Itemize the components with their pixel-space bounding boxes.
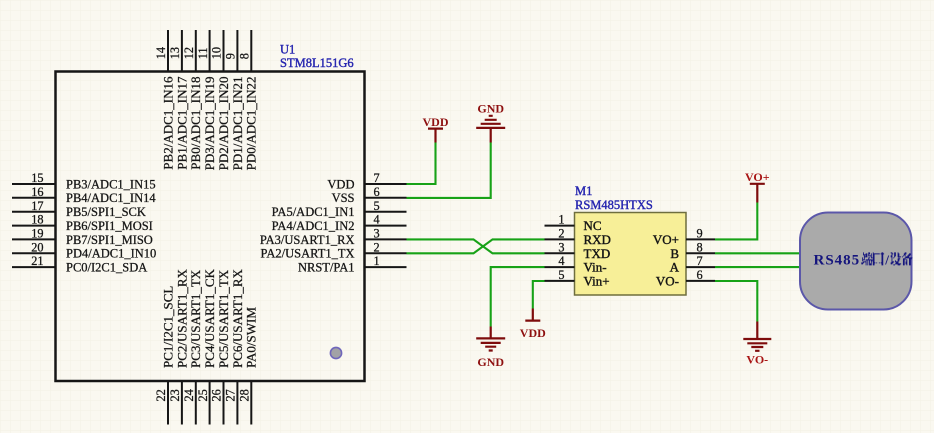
svg-text:PC6/USART1_RX: PC6/USART1_RX — [230, 268, 245, 368]
wire M1 pin 6 VO- to VO- power port — [715, 281, 757, 322]
ground GND (top, flipped) — [476, 102, 505, 143]
svg-text:PC5/USART1_TX: PC5/USART1_TX — [216, 269, 231, 368]
svg-text:19: 19 — [31, 227, 43, 241]
svg-text:RSM485HTXS: RSM485HTXS — [575, 198, 653, 212]
svg-text:15: 15 — [31, 171, 43, 185]
svg-text:9: 9 — [697, 227, 703, 241]
M1 pin 9 VO+ (right) — [653, 227, 715, 248]
svg-text:16: 16 — [31, 185, 43, 199]
svg-text:PC4/USART1_CK: PC4/USART1_CK — [202, 268, 217, 368]
svg-text:PA0/SWIM: PA0/SWIM — [244, 307, 259, 368]
U1 pin 22 PC1/I2C1_SCL (bottom) — [154, 286, 175, 425]
svg-text:PB3/ADC1_IN15: PB3/ADC1_IN15 — [66, 177, 156, 191]
U1 pin 11 PD3/ADC1_IN19 (top) — [196, 30, 217, 170]
U1 pin 4 PA4/ADC1_IN2 (right) — [272, 213, 407, 233]
M1 pin 3 TXD (left) — [545, 240, 611, 261]
svg-text:23: 23 — [168, 389, 182, 401]
wire GND rail to U1 pin 6 VSS — [407, 143, 491, 198]
svg-text:4: 4 — [374, 213, 380, 227]
svg-text:10: 10 — [210, 47, 224, 59]
U1 pin 2 PA2/USART1_TX (right) — [261, 240, 407, 260]
U1 pin 27 PC6/USART1_RX (bottom) — [224, 268, 245, 424]
svg-text:PB4/ADC1_IN14: PB4/ADC1_IN14 — [66, 191, 156, 205]
svg-text:1: 1 — [558, 213, 564, 227]
U1 pin 19 PB7/SPI1_MISO (left) — [12, 227, 153, 247]
svg-text:Vin+: Vin+ — [584, 274, 610, 289]
svg-text:8: 8 — [238, 53, 252, 59]
svg-text:A: A — [670, 260, 680, 275]
svg-text:Vin-: Vin- — [584, 260, 607, 275]
M1 pin 1 NC (left) — [545, 213, 602, 234]
svg-text:VO-: VO- — [746, 353, 768, 367]
wire M1 pin 8 B to RS485 device — [715, 252, 800, 254]
svg-text:/: / — [884, 253, 889, 268]
svg-text:27: 27 — [224, 389, 238, 401]
M1 pin 7 A (right) — [670, 254, 715, 275]
U1 pin 12 PB0/ADC1_IN18 (top) — [182, 30, 203, 170]
power port VDD (top, net VDD) — [423, 115, 449, 143]
svg-text:VDD: VDD — [423, 115, 449, 129]
svg-text:6: 6 — [697, 268, 703, 282]
svg-text:NC: NC — [584, 218, 602, 233]
svg-text:PC1/I2C1_SCL: PC1/I2C1_SCL — [160, 286, 175, 368]
wire VDD rail to U1 pin 7 VDD — [407, 143, 436, 185]
svg-text:PC0/I2C1_SDA: PC0/I2C1_SDA — [66, 261, 147, 275]
svg-text:PB5/SPI1_SCK: PB5/SPI1_SCK — [66, 205, 146, 219]
svg-text:11: 11 — [196, 47, 210, 59]
svg-text:NRST/PA1: NRST/PA1 — [298, 261, 355, 275]
svg-text:25: 25 — [196, 389, 210, 401]
svg-text:GND: GND — [477, 355, 504, 369]
svg-text:GND: GND — [477, 102, 504, 116]
svg-text:20: 20 — [31, 240, 43, 254]
M1 designator and part number labels — [575, 184, 653, 212]
U1 pin 13 PB1/ADC1_IN17 (top) — [168, 30, 189, 170]
U1 pin 9 PD1/ADC1_IN21 (top) — [224, 30, 245, 170]
svg-text:2: 2 — [374, 240, 380, 254]
wire M1 pin 7 A to RS485 device — [715, 266, 800, 268]
svg-text:RS485: RS485 — [814, 252, 861, 268]
svg-text:7: 7 — [697, 254, 703, 268]
svg-text:PB7/SPI1_MISO: PB7/SPI1_MISO — [66, 233, 153, 247]
svg-text:5: 5 — [374, 199, 380, 213]
ground GND (bottom) — [476, 327, 505, 370]
svg-text:28: 28 — [238, 389, 252, 401]
svg-text:TXD: TXD — [584, 246, 611, 261]
wire U1 PA3/USART1_RX to M1 TXD (crossover) — [407, 239, 545, 253]
svg-text:24: 24 — [182, 389, 196, 401]
svg-text:PC2/USART1_RX: PC2/USART1_RX — [174, 268, 189, 368]
U1 pin 18 PB6/SPI1_MOSI (left) — [12, 213, 153, 233]
U1 pin 28 PA0/SWIM (bottom) — [238, 307, 259, 425]
svg-text:18: 18 — [31, 213, 43, 227]
U1 body marker dot — [330, 347, 341, 358]
RS485 port/device label: RS485端口/设备 — [814, 252, 913, 268]
svg-text:1: 1 — [374, 254, 380, 268]
svg-text:PD0/ADC1_IN22: PD0/ADC1_IN22 — [244, 77, 259, 171]
U1 pin 6 VSS (right) — [332, 185, 407, 205]
U1 pin 21 PC0/I2C1_SDA (left) — [12, 254, 147, 274]
wire U1 PA2/USART1_TX to M1 RXD (crossover) — [407, 239, 545, 253]
U1 pin 3 PA3/USART1_RX (right) — [260, 227, 407, 247]
IC U1 STM8L151G6 body — [56, 72, 365, 382]
svg-text:21: 21 — [31, 254, 43, 268]
svg-text:3: 3 — [558, 240, 564, 254]
power port VDD (bottom, flipped) — [520, 309, 546, 340]
U1 pin 10 PD2/ADC1_IN20 (top) — [210, 30, 231, 170]
svg-text:6: 6 — [374, 185, 380, 199]
svg-text:PA5/ADC1_IN1: PA5/ADC1_IN1 — [272, 205, 355, 219]
U1 pin 1 NRST/PA1 (right) — [298, 254, 407, 274]
svg-text:7: 7 — [374, 171, 380, 185]
svg-text:3: 3 — [374, 227, 380, 241]
svg-text:13: 13 — [168, 47, 182, 59]
U1 pin 15 PB3/ADC1_IN15 (left) — [12, 171, 156, 191]
RS485 port/device block — [800, 213, 912, 310]
svg-text:5: 5 — [558, 268, 564, 282]
svg-text:VO+: VO+ — [745, 170, 770, 184]
svg-text:PB1/ADC1_IN17: PB1/ADC1_IN17 — [174, 76, 189, 170]
U1 pin 16 PB4/ADC1_IN14 (left) — [12, 185, 156, 205]
U1 pin 14 PB2/ADC1_IN16 (top) — [154, 30, 175, 170]
power port VO+ — [745, 170, 770, 203]
svg-text:PB0/ADC1_IN18: PB0/ADC1_IN18 — [188, 77, 203, 170]
U1 pin 17 PB5/SPI1_SCK (left) — [12, 199, 146, 219]
svg-text:RXD: RXD — [584, 232, 611, 247]
svg-text:2: 2 — [558, 227, 564, 241]
svg-text:M1: M1 — [575, 184, 592, 198]
svg-text:17: 17 — [31, 199, 43, 213]
U1 pin 24 PC3/USART1_TX (bottom) — [182, 269, 203, 424]
U1 pin 7 VDD (right) — [327, 171, 406, 191]
U1 pin 25 PC4/USART1_CK (bottom) — [196, 268, 217, 424]
svg-text:PC3/USART1_TX: PC3/USART1_TX — [188, 269, 203, 368]
module M1 RSM485HTXS body — [575, 213, 687, 296]
M1 pin 4 Vin- (left) — [545, 254, 607, 275]
svg-text:14: 14 — [154, 47, 168, 59]
svg-text:PA4/ADC1_IN2: PA4/ADC1_IN2 — [272, 219, 355, 233]
svg-text:PD1/ADC1_IN21: PD1/ADC1_IN21 — [230, 77, 245, 171]
M1 pin 5 Vin+ (left) — [545, 268, 610, 289]
svg-text:22: 22 — [154, 389, 168, 401]
svg-text:4: 4 — [558, 254, 564, 268]
U1 designator and part number labels — [280, 43, 354, 71]
svg-text:9: 9 — [224, 53, 238, 59]
svg-text:VDD: VDD — [520, 326, 546, 340]
ground-style power port VO- — [743, 322, 771, 367]
U1 pin 26 PC5/USART1_TX (bottom) — [210, 269, 231, 424]
U1 pin 5 PA5/ADC1_IN1 (right) — [272, 199, 407, 219]
wire M1 Vin+ to VDD rail — [533, 281, 545, 309]
svg-text:STM8L151G6: STM8L151G6 — [280, 56, 354, 70]
svg-text:U1: U1 — [280, 43, 295, 57]
svg-text:PB6/SPI1_MOSI: PB6/SPI1_MOSI — [66, 219, 153, 233]
svg-text:VSS: VSS — [332, 191, 355, 205]
M1 pin 2 RXD (left) — [545, 227, 611, 248]
svg-text:PD4/ADC1_IN10: PD4/ADC1_IN10 — [66, 247, 156, 261]
U1 pin 20 PD4/ADC1_IN10 (left) — [12, 240, 156, 260]
svg-text:PD2/ADC1_IN20: PD2/ADC1_IN20 — [216, 77, 231, 171]
svg-text:26: 26 — [210, 389, 224, 401]
svg-text:VO-: VO- — [656, 274, 679, 289]
wire M1 Vin- to GND rail — [491, 267, 545, 326]
svg-text:PB2/ADC1_IN16: PB2/ADC1_IN16 — [160, 76, 175, 170]
wire M1 pin 9 VO+ to VO+ power port — [715, 203, 757, 240]
svg-text:12: 12 — [182, 47, 196, 59]
svg-text:PD3/ADC1_IN19: PD3/ADC1_IN19 — [202, 77, 217, 171]
M1 pin 8 B (right) — [670, 240, 715, 261]
M1 pin 6 VO- (right) — [656, 268, 715, 289]
svg-text:PA3/USART1_RX: PA3/USART1_RX — [260, 233, 355, 247]
svg-text:8: 8 — [697, 240, 703, 254]
svg-text:VO+: VO+ — [653, 232, 679, 247]
svg-text:PA2/USART1_TX: PA2/USART1_TX — [261, 247, 355, 261]
svg-text:B: B — [670, 246, 679, 261]
svg-text:VDD: VDD — [327, 177, 354, 191]
U1 pin 23 PC2/USART1_RX (bottom) — [168, 268, 189, 424]
U1 pin 8 PD0/ADC1_IN22 (top) — [238, 30, 259, 170]
